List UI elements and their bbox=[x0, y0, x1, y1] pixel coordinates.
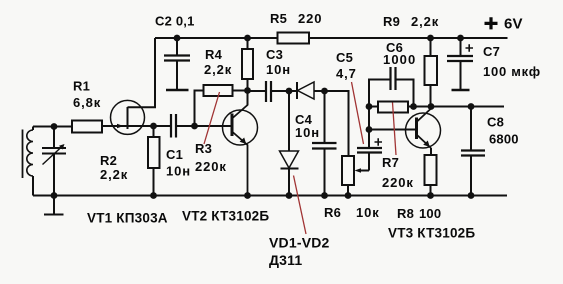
svg-text:C7: C7 bbox=[483, 44, 500, 59]
junction node rail C4 bbox=[321, 192, 328, 199]
svg-text:10н: 10н bbox=[266, 62, 291, 77]
junction node rail tank bbox=[51, 192, 58, 199]
svg-text:R7: R7 bbox=[382, 155, 399, 170]
svg-text:VT3 КТ3102Б: VT3 КТ3102Б bbox=[388, 225, 475, 240]
svg-text:C5: C5 bbox=[336, 50, 353, 65]
pointer line VD1-VD2 bbox=[294, 176, 307, 235]
junction node rail R6 bbox=[345, 192, 352, 199]
svg-text:R3: R3 bbox=[195, 141, 212, 156]
svg-text:R2: R2 bbox=[100, 153, 117, 168]
resistor R5 bbox=[278, 33, 310, 44]
diode VD2 bbox=[280, 151, 299, 169]
capacitor C6 bbox=[391, 67, 396, 90]
wire C7 top lead bbox=[460, 38, 462, 56]
resistor R2 bbox=[148, 137, 160, 168]
pointer line R3 bbox=[204, 92, 220, 144]
wire R9 bottom lead bbox=[430, 85, 432, 107]
svg-text:220к: 220к bbox=[195, 159, 227, 174]
svg-text:220: 220 bbox=[298, 11, 322, 26]
svg-text:10н: 10н bbox=[166, 164, 191, 179]
wire coil bottom lead bbox=[32, 176, 34, 196]
diode VD1 bbox=[297, 82, 314, 99]
wire tuning cap top lead bbox=[53, 127, 55, 149]
svg-text:R8: R8 bbox=[397, 206, 414, 221]
wire C2 bottom lead bbox=[176, 61, 178, 89]
svg-text:220к: 220к bbox=[382, 175, 414, 190]
svg-text:100 мкф: 100 мкф bbox=[483, 64, 541, 79]
wire output row bbox=[414, 106, 505, 108]
svg-text:100: 100 bbox=[419, 206, 441, 221]
junction node top rail C7 bbox=[457, 35, 464, 42]
junction node VT3 collector bbox=[428, 103, 435, 110]
wire C5 top lead through base node to feedback node bbox=[368, 107, 370, 149]
wire R2 bottom lead bbox=[153, 168, 155, 196]
svg-text:C2 0,1: C2 0,1 bbox=[155, 14, 195, 29]
pointer line C5 bbox=[352, 82, 364, 144]
capacitor C7 electrolytic bbox=[447, 44, 473, 61]
wire C8 top lead bbox=[470, 107, 472, 151]
junction node rail VT2 emitter bbox=[244, 192, 251, 199]
wire C4 bottom lead bbox=[324, 149, 326, 196]
junction node VT1 source bbox=[150, 123, 157, 130]
svg-text:6V: 6V bbox=[504, 16, 523, 33]
ground C7 bbox=[452, 89, 470, 92]
svg-text:4,7: 4,7 bbox=[336, 66, 357, 81]
resistor R3 bbox=[204, 85, 233, 96]
resistor R8 bbox=[425, 155, 437, 185]
svg-text:VT2 КТ3102Б: VT2 КТ3102Б bbox=[182, 208, 269, 223]
junction node VT3 base bbox=[366, 126, 373, 133]
resistor R4 bbox=[242, 49, 253, 79]
capacitor C2 bbox=[164, 56, 190, 61]
junction node rail VD2 bbox=[286, 192, 293, 199]
capacitor C1 bbox=[171, 114, 176, 138]
capacitor C3 bbox=[266, 81, 271, 102]
wire R6 bottom lead bbox=[347, 185, 349, 196]
junction node top rail R9 bbox=[427, 35, 434, 42]
resistor R6 potentiometer bbox=[342, 156, 361, 185]
junction node rail R2 bbox=[150, 192, 157, 199]
svg-text:Д311: Д311 bbox=[269, 252, 302, 268]
wire C1 to VT2 base bbox=[177, 125, 232, 127]
wire base node to VT3 base bbox=[369, 129, 416, 131]
wire VD2 bottom lead bbox=[288, 169, 290, 196]
svg-text:R1: R1 bbox=[73, 78, 90, 93]
svg-text:1000: 1000 bbox=[383, 52, 416, 67]
svg-text:10к: 10к bbox=[356, 205, 380, 220]
wire C6 right arm bbox=[396, 80, 414, 107]
svg-text:R4: R4 bbox=[205, 47, 223, 62]
pointer line R7 bbox=[393, 103, 397, 156]
wire R3 left lead to base node bbox=[195, 91, 204, 127]
wire R3 right lead bbox=[233, 90, 248, 92]
wire C8 bottom lead bbox=[470, 156, 472, 196]
wire bottom ground rail bbox=[33, 195, 507, 197]
wire R2 top lead bbox=[153, 126, 155, 137]
capacitor C5 electrolytic bbox=[357, 138, 382, 152]
transistor VT1 JFET bbox=[111, 100, 145, 134]
ground C2 bbox=[166, 89, 189, 92]
wire R8 bottom lead bbox=[430, 185, 432, 196]
svg-text:C3: C3 bbox=[266, 47, 283, 62]
wire R4 bottom lead to collector node bbox=[247, 79, 249, 105]
inductor L1 magnetic antenna coil bbox=[23, 127, 34, 179]
variable tuning capacitor bbox=[42, 144, 66, 165]
wire C4 top lead bbox=[324, 91, 326, 143]
junction node top rail R4 bbox=[244, 35, 251, 42]
svg-text:R6: R6 bbox=[324, 205, 341, 220]
capacitor C8 bbox=[461, 151, 485, 156]
wire VD2 top lead bbox=[288, 91, 290, 151]
wire R4 top lead bbox=[247, 38, 249, 49]
svg-text:VT1 КП303А: VT1 КП303А bbox=[87, 210, 168, 225]
junction node VT3 base network left bbox=[366, 103, 373, 110]
junction node rail C8 bbox=[468, 192, 475, 199]
wire R7 right lead bbox=[408, 106, 414, 108]
svg-text:R9: R9 bbox=[383, 14, 400, 29]
junction node rail R8 bbox=[427, 192, 434, 199]
wire VT3 emitter to R8 bbox=[430, 148, 432, 155]
svg-text:VD1-VD2: VD1-VD2 bbox=[269, 235, 330, 251]
svg-text:C8: C8 bbox=[487, 115, 504, 130]
junction node tank top bbox=[51, 123, 58, 130]
wire top rail right segment bbox=[309, 37, 508, 39]
wire tank top to R1 bbox=[33, 126, 72, 128]
junction node VT2 base bbox=[191, 123, 198, 130]
wire VT1 drain to top rail bbox=[128, 38, 156, 107]
svg-text:2,2к: 2,2к bbox=[204, 62, 232, 77]
wire tuning cap bottom lead bbox=[53, 154, 55, 196]
wire R7 left lead bbox=[369, 106, 378, 108]
wire collector node to C3 bbox=[248, 90, 266, 92]
resistor R7 bbox=[378, 102, 408, 113]
junction node detector out bbox=[321, 88, 328, 95]
resistor R9 bbox=[425, 56, 438, 85]
wire C7 bottom lead bbox=[460, 61, 462, 89]
svg-text:6800: 6800 bbox=[489, 132, 519, 147]
wire VD1 to detector node and down to R6 bbox=[314, 91, 349, 156]
junction node top rail C2 bbox=[174, 35, 181, 42]
wire R9 top lead bbox=[430, 38, 432, 56]
wire C2 top lead bbox=[176, 38, 178, 55]
junction node VD2 top bbox=[286, 88, 293, 95]
junction node feedback right bbox=[410, 103, 417, 110]
svg-text:6,8к: 6,8к bbox=[73, 95, 101, 110]
svg-text:R5: R5 bbox=[270, 11, 287, 26]
capacitor C4 bbox=[312, 143, 337, 149]
wire C6 left arm bbox=[369, 80, 390, 107]
label +6V supply bbox=[485, 17, 498, 29]
wire top rail left segment bbox=[155, 37, 278, 39]
wire R1 to VT1 gate through to source node bbox=[102, 125, 171, 127]
svg-text:2,2к: 2,2к bbox=[100, 167, 128, 182]
junction node VT2 collector bbox=[244, 87, 251, 94]
svg-text:C1: C1 bbox=[166, 147, 183, 162]
wire C3 to VD1 bbox=[272, 90, 298, 92]
wire R6 wiper to C5 bbox=[359, 153, 369, 171]
resistor R1 bbox=[72, 121, 102, 133]
svg-text:10н: 10н bbox=[295, 125, 320, 140]
transistor VT3 bbox=[406, 107, 441, 149]
ground main bbox=[44, 196, 64, 215]
junction node C8 top bbox=[468, 103, 475, 110]
svg-text:2,2к: 2,2к bbox=[411, 14, 439, 29]
transistor VT2 bbox=[223, 91, 258, 196]
